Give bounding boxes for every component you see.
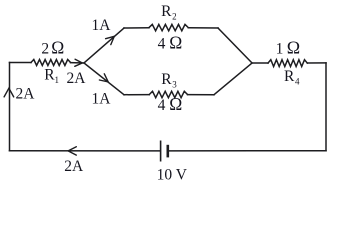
svg-text:4: 4	[158, 97, 166, 114]
svg-text:R: R	[161, 71, 172, 88]
svg-text:10 V: 10 V	[157, 167, 188, 184]
svg-text:R: R	[284, 68, 295, 85]
svg-text:Ω: Ω	[287, 38, 300, 58]
svg-text:2: 2	[172, 11, 177, 21]
svg-text:Ω: Ω	[169, 94, 182, 114]
svg-text:1A: 1A	[92, 17, 112, 34]
svg-text:4: 4	[295, 76, 300, 86]
svg-text:3: 3	[172, 80, 177, 90]
svg-text:2A: 2A	[67, 70, 87, 87]
svg-text:2A: 2A	[16, 86, 36, 103]
svg-text:Ω: Ω	[169, 33, 182, 53]
svg-text:4: 4	[158, 35, 166, 52]
svg-text:Ω: Ω	[51, 38, 64, 58]
svg-text:2: 2	[41, 41, 49, 58]
svg-text:R: R	[161, 3, 172, 20]
svg-text:1: 1	[55, 75, 60, 85]
svg-text:2A: 2A	[64, 158, 84, 175]
svg-text:1A: 1A	[92, 90, 112, 107]
svg-text:1: 1	[276, 40, 284, 57]
